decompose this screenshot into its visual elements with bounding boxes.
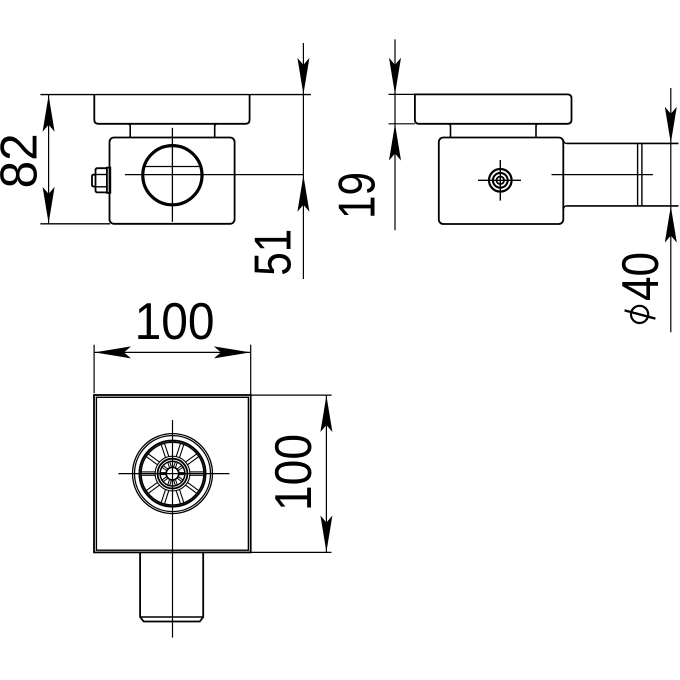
horizontal centerline view1 bbox=[125, 174, 304, 176]
bolt side view1 bbox=[92, 168, 110, 193]
extension line 100 right top bbox=[251, 394, 332, 396]
dimension line 51 bbox=[302, 43, 304, 279]
svg-text:19: 19 bbox=[329, 172, 387, 219]
label 19 bbox=[329, 172, 387, 219]
arrow 51 top bbox=[297, 58, 309, 95]
label 82 bbox=[0, 133, 48, 188]
arrow 100 right bottom bbox=[320, 516, 332, 553]
grate outer rim circles bbox=[133, 434, 213, 514]
dimension line diameter 40 bbox=[670, 88, 672, 332]
flange side view2 bbox=[415, 94, 572, 123]
inner square plan bbox=[96, 397, 248, 550]
neck right edge view2 bbox=[536, 124, 539, 138]
svg-text:40: 40 bbox=[612, 252, 670, 301]
neck left edge view1 bbox=[128, 124, 131, 138]
bottom outlet pipe plan bbox=[140, 552, 203, 621]
top extension line view2 bbox=[389, 93, 415, 95]
arrow 100 left bbox=[95, 346, 132, 358]
arrow 82 bottom bbox=[43, 187, 55, 224]
arrow 100 right top bbox=[320, 396, 332, 433]
arrow 100 right bbox=[214, 346, 251, 358]
outlet pipe view2 bottom edge + extension bbox=[563, 206, 678, 210]
extension line 100 top left bbox=[93, 345, 95, 394]
arrow 19 bottom bbox=[389, 124, 401, 161]
flange bottom extension line view2 bbox=[389, 123, 415, 125]
arrow 51 bottom bbox=[297, 175, 309, 212]
svg-text:100: 100 bbox=[265, 434, 323, 511]
svg-text:82: 82 bbox=[0, 133, 48, 188]
svg-text:100: 100 bbox=[135, 293, 215, 351]
drain body view2 bbox=[439, 138, 564, 225]
bottom extension line view1 bbox=[40, 223, 110, 225]
svg-text:51: 51 bbox=[245, 229, 303, 276]
extension line 100 right bottom bbox=[251, 551, 332, 553]
extension line 100 top right bbox=[250, 345, 252, 395]
neck left edge view2 bbox=[448, 124, 451, 138]
bolt target symbol view2 bbox=[478, 160, 521, 201]
dimension line 100 top bbox=[94, 351, 251, 353]
label 51 bbox=[245, 229, 303, 276]
dimension line 19 bbox=[394, 39, 396, 230]
label 100 top bbox=[135, 293, 215, 351]
dimension line 100 right bbox=[325, 395, 327, 552]
arrow 82 top bbox=[43, 95, 55, 132]
arrow d40 top bbox=[665, 107, 677, 144]
arrow d40 bottom bbox=[665, 206, 677, 243]
arrow 19 top bbox=[389, 58, 401, 95]
flange body view1 bbox=[94, 95, 249, 124]
horizontal centerline plan bbox=[118, 473, 229, 475]
wire top surface extension line view1 bbox=[40, 94, 311, 96]
outlet pipe view2 top edge + extension bbox=[563, 140, 678, 144]
grate hub circles bbox=[155, 456, 190, 491]
label d40 bbox=[612, 252, 670, 323]
grate spokes bbox=[141, 443, 203, 503]
outer square plan bbox=[94, 395, 251, 552]
grate hub connectors bbox=[161, 462, 185, 485]
drain body view1 bbox=[110, 138, 235, 224]
vertical centerline view1 bbox=[171, 128, 173, 222]
label 100 right bbox=[265, 434, 323, 511]
neck right edge view1 bbox=[215, 124, 218, 138]
outlet pipe end rim view2 bbox=[638, 143, 642, 206]
vertical centerline plan bbox=[172, 420, 174, 638]
outlet circle view1 bbox=[143, 146, 202, 205]
pipe centerline view2 bbox=[552, 174, 653, 176]
dimension line 82 bbox=[48, 95, 50, 224]
water level chord view1 bbox=[144, 166, 201, 168]
